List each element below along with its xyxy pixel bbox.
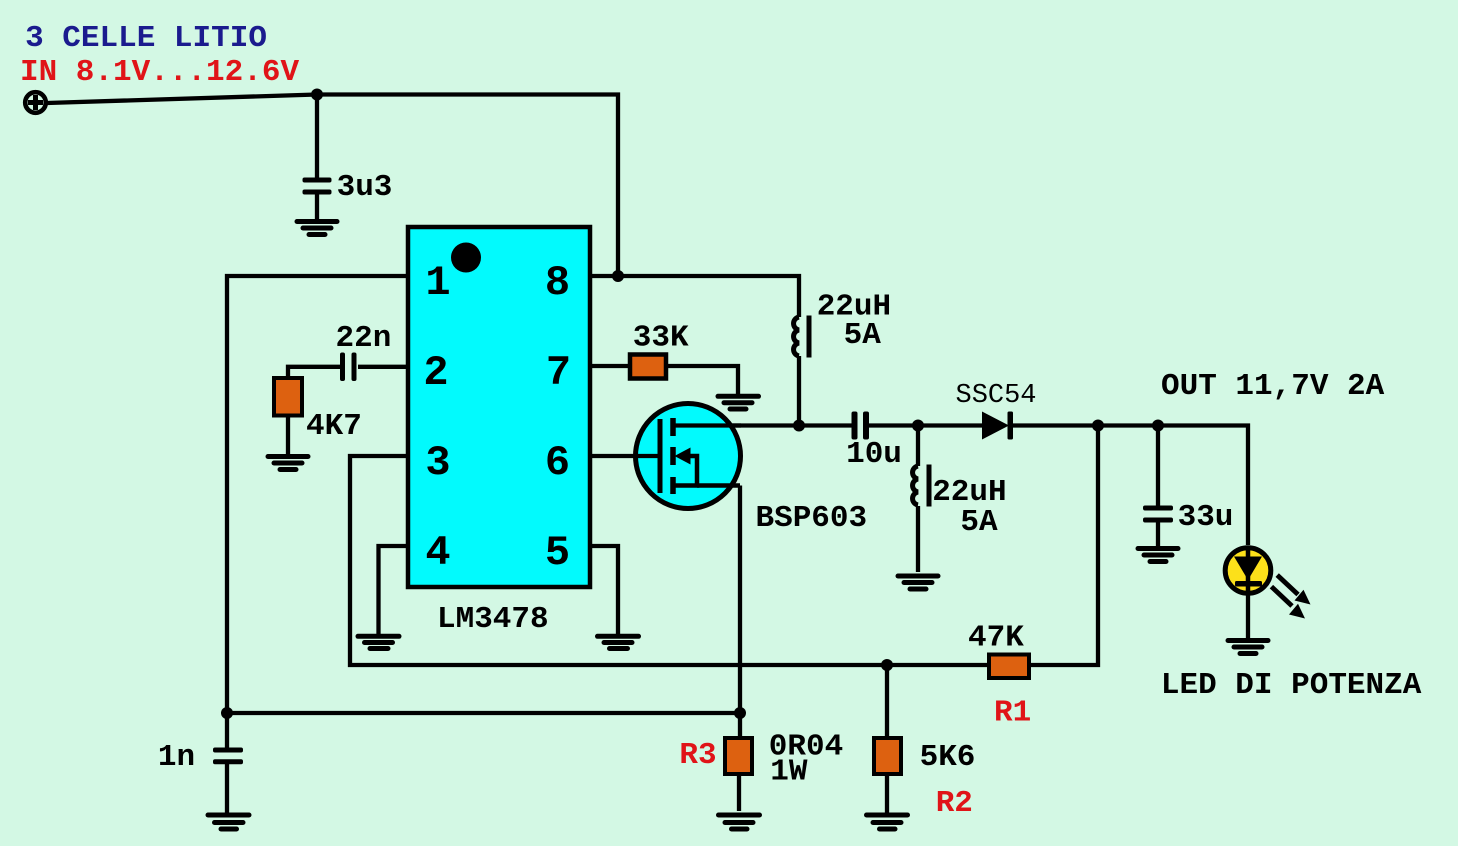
wire R3 to ground — [737, 773, 741, 811]
ground under R2 — [867, 815, 908, 829]
svg-text:R1: R1 — [994, 696, 1031, 731]
wire pin1 to 1n node — [227, 276, 408, 713]
wire LED to ground — [1246, 594, 1250, 638]
svg-text:5A: 5A — [960, 505, 998, 540]
wire pin8 to inductor — [590, 276, 799, 317]
wire pin2 to 22n — [358, 365, 408, 369]
node junction diode-L2 — [912, 420, 924, 432]
wire 33K to ground — [668, 366, 738, 394]
ground under LED — [1228, 641, 1268, 654]
LED light arrows — [1271, 575, 1310, 618]
capacitor 10u — [852, 412, 870, 440]
wire diode anode — [918, 423, 982, 427]
node input terminal — [25, 92, 46, 113]
wire 47K to output node — [1029, 426, 1098, 666]
ground under 4K7 — [268, 457, 308, 470]
capacitor 33u — [1143, 506, 1173, 523]
svg-text:4: 4 — [425, 529, 450, 577]
svg-text:2: 2 — [423, 349, 448, 397]
svg-text:47K: 47K — [968, 621, 1024, 656]
wire pin7 to 33K — [590, 364, 628, 368]
svg-text:3u3: 3u3 — [337, 170, 393, 205]
node junction drain-L1 — [793, 420, 805, 432]
svg-text:7: 7 — [546, 349, 571, 397]
capacitor 3u3 — [303, 178, 332, 195]
ground under pin4 — [358, 636, 399, 648]
wire 33u top — [1156, 426, 1160, 507]
wire pin3 feedback — [350, 456, 988, 665]
wire 4K7 to ground — [286, 415, 290, 454]
wire 5K6 to ground — [885, 773, 889, 813]
svg-text:BSP603: BSP603 — [756, 501, 868, 536]
svg-text:1W: 1W — [770, 754, 808, 789]
diode D1 SSC54 — [982, 412, 1013, 440]
resistor R1 47K — [989, 655, 1029, 679]
svg-text:4K7: 4K7 — [306, 409, 362, 444]
svg-text:5: 5 — [545, 529, 570, 577]
wire 3u3 top — [315, 95, 319, 179]
resistor R2 5K6 — [874, 738, 901, 774]
svg-text:3 CELLE LITIO: 3 CELLE LITIO — [25, 21, 267, 56]
node junction 1n — [221, 707, 233, 719]
wire 22n to 4K7 — [288, 367, 340, 378]
svg-text:1: 1 — [425, 259, 450, 307]
svg-text:R3: R3 — [679, 738, 716, 773]
wire input rail — [47, 95, 618, 277]
svg-text:22n: 22n — [336, 321, 392, 356]
svg-text:IN 8.1V...12.6V: IN 8.1V...12.6V — [20, 55, 299, 90]
wire mosfet source down — [738, 486, 742, 740]
ground under 33K — [718, 396, 759, 409]
inductor L2 22uH — [913, 465, 929, 507]
inductor L1 22uH — [794, 316, 809, 358]
wire L2 to ground — [916, 506, 920, 572]
resistor R3 0R04 — [725, 738, 752, 774]
ground under 3u3 — [297, 222, 337, 235]
svg-text:LED DI POTENZA: LED DI POTENZA — [1161, 668, 1422, 703]
svg-text:5K6: 5K6 — [920, 740, 976, 775]
resistor 33K — [630, 355, 666, 379]
ground under L2 — [898, 576, 938, 589]
ground under 33u — [1138, 549, 1178, 562]
wire 1n cap to ground — [225, 764, 229, 813]
node junction 33u — [1152, 420, 1164, 432]
wire pin5 to ground — [590, 546, 618, 634]
svg-text:OUT 11,7V 2A: OUT 11,7V 2A — [1161, 369, 1385, 404]
wire 1n node to R3 node — [227, 711, 740, 715]
node junction pin8 — [612, 270, 624, 282]
svg-text:SSC54: SSC54 — [956, 381, 1037, 411]
wire L1 node to 10u — [799, 423, 852, 427]
wire 33u to ground — [1156, 523, 1160, 547]
capacitor 1n — [213, 748, 243, 765]
svg-text:LM3478: LM3478 — [437, 602, 549, 637]
IC U1 LM3478 — [408, 227, 590, 587]
ground under R3 — [719, 815, 760, 829]
svg-text:R2: R2 — [936, 786, 973, 821]
capacitor 22n — [340, 353, 357, 382]
wire 3u3 to ground — [315, 195, 319, 220]
wire diode cathode to output — [1013, 426, 1248, 546]
ground under pin5 — [598, 636, 639, 648]
ground under 1n — [208, 815, 249, 829]
transistor Q1 BSP603 — [636, 404, 742, 509]
wire 5K6 top — [885, 665, 889, 738]
node junction 5K6 — [881, 659, 893, 671]
resistor 4K7 — [274, 378, 302, 416]
wire 1n cap top — [225, 713, 229, 748]
svg-text:3: 3 — [425, 439, 450, 487]
svg-text:10u: 10u — [846, 437, 902, 472]
wire pin6 gate — [590, 454, 660, 458]
svg-text:8: 8 — [545, 259, 570, 307]
svg-text:33K: 33K — [633, 321, 689, 356]
wire 10u to diode node — [869, 423, 918, 427]
LED D2 — [1225, 548, 1271, 594]
node junction R3 — [734, 707, 746, 719]
svg-text:33u: 33u — [1178, 500, 1234, 535]
svg-text:1n: 1n — [158, 740, 195, 775]
node junction feedback-out — [1092, 420, 1104, 432]
wire L2 top — [916, 426, 920, 467]
svg-text:5A: 5A — [844, 318, 882, 353]
node junction at 3u3 — [311, 89, 323, 101]
wire pin4 to ground — [379, 546, 409, 634]
wire inductor L1 bottom — [797, 356, 801, 426]
wire mosfet drain — [674, 423, 799, 427]
svg-text:6: 6 — [545, 439, 570, 487]
